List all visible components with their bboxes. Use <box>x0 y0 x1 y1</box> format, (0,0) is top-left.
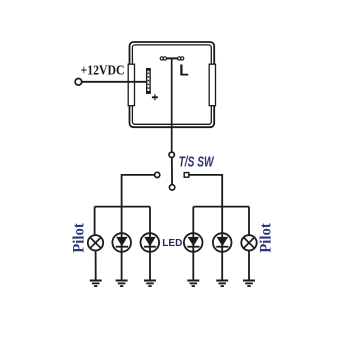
relay box U1 inner case <box>132 45 211 124</box>
left bus wire <box>95 206 150 208</box>
switch blade <box>171 158 173 185</box>
wire over D4 <box>221 233 223 252</box>
terminal +12V bar inside relay <box>147 69 150 94</box>
ground G2 <box>116 281 128 287</box>
switch top contact <box>169 152 174 157</box>
svg-text:LED: LED <box>162 238 182 249</box>
pilot lamp P1 <box>88 235 103 250</box>
svg-text:+12VDC: +12VDC <box>81 63 125 78</box>
LED D3 <box>184 233 203 252</box>
ground G5 <box>216 281 228 287</box>
ground G3 <box>144 281 156 287</box>
LED D2 <box>141 233 160 252</box>
LED D4 <box>213 233 232 252</box>
wire bus to LED D3 <box>192 207 194 280</box>
label + <box>152 96 158 98</box>
wire over D2 <box>149 233 151 252</box>
switch left contact <box>155 172 160 177</box>
ground G1 <box>90 281 102 287</box>
switch right contact <box>184 173 189 178</box>
svg-text:Pilot: Pilot <box>71 222 88 252</box>
wire bus to pilot P1 <box>94 207 96 236</box>
svg-text:Pilot: Pilot <box>258 222 275 252</box>
wire P2 to ground <box>248 251 250 281</box>
wire P1 to ground <box>95 251 97 281</box>
wire over D3 <box>192 233 194 252</box>
wire bus to pilot P2 <box>248 207 250 236</box>
wire feed through LED D1 <box>121 207 123 280</box>
relay mounting tab right <box>209 64 215 106</box>
switch bottom contact <box>169 185 174 190</box>
relay box U1 outer case <box>130 42 215 127</box>
pilot lamp P2 <box>241 235 256 250</box>
wire bus to LED D2 <box>149 207 151 280</box>
terminal L bar <box>160 57 184 59</box>
ground G6 <box>243 281 255 287</box>
wire feed through LED D4 <box>221 207 223 280</box>
svg-text:L: L <box>179 63 188 80</box>
wire +12V to relay <box>82 81 147 83</box>
relay mounting tab left <box>128 64 134 106</box>
wire switch left branch <box>122 175 155 207</box>
LED D1 <box>112 233 131 252</box>
right bus wire <box>193 206 249 208</box>
wire switch right branch <box>189 175 222 207</box>
ground G4 <box>187 281 199 287</box>
wire over D1 <box>121 233 123 252</box>
wire L to switch <box>171 58 173 152</box>
svg-text:T/S SW: T/S SW <box>179 155 215 171</box>
+12V terminal circle <box>75 79 82 86</box>
